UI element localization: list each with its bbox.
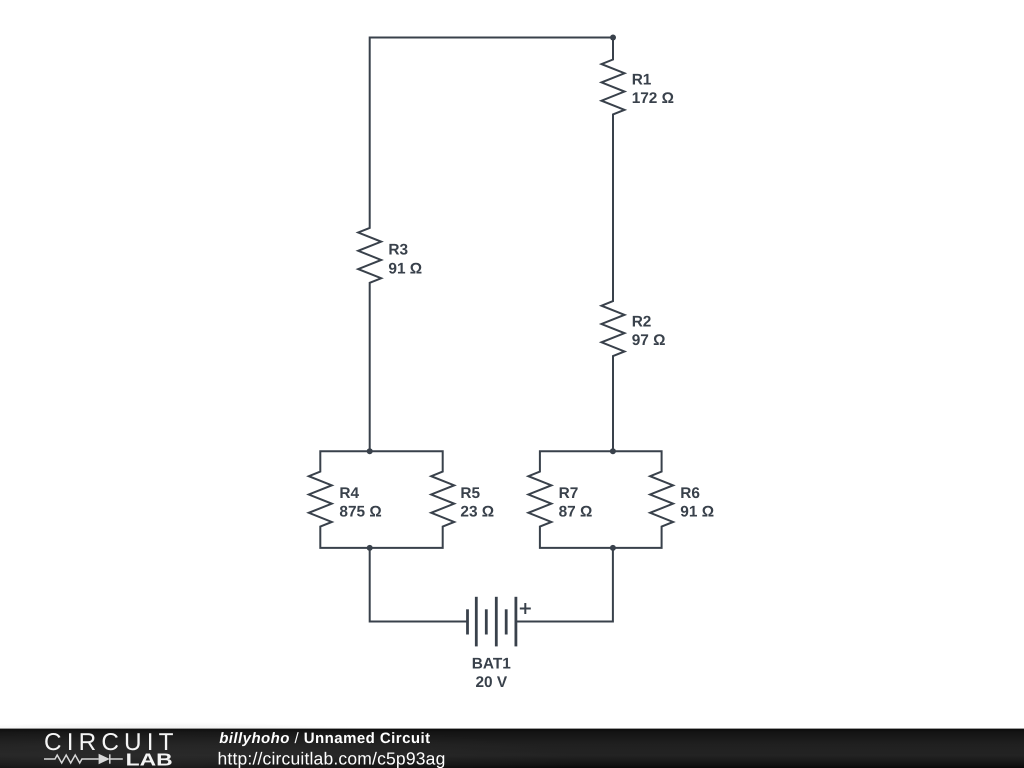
svg-text:R5: R5 — [460, 485, 480, 502]
svg-text:172 Ω: 172 Ω — [632, 90, 674, 107]
svg-text:R7: R7 — [559, 485, 579, 502]
svg-text:875 Ω: 875 Ω — [339, 504, 381, 521]
svg-text:20 V: 20 V — [475, 674, 507, 691]
svg-text:BAT1: BAT1 — [472, 655, 511, 672]
svg-text:R4: R4 — [339, 485, 359, 502]
svg-text:R3: R3 — [388, 242, 408, 259]
svg-text:LAB: LAB — [126, 749, 173, 768]
svg-text:91 Ω: 91 Ω — [680, 504, 714, 521]
svg-text:billyhoho / Unnamed Circuit: billyhoho / Unnamed Circuit — [219, 730, 430, 747]
svg-text:http://circuitlab.com/c5p93ag: http://circuitlab.com/c5p93ag — [218, 749, 446, 768]
svg-text:87 Ω: 87 Ω — [559, 504, 593, 521]
svg-text:97 Ω: 97 Ω — [632, 332, 666, 349]
svg-text:91 Ω: 91 Ω — [388, 260, 422, 277]
svg-text:23 Ω: 23 Ω — [460, 504, 494, 521]
svg-text:R6: R6 — [680, 485, 700, 502]
svg-text:R1: R1 — [632, 72, 652, 89]
svg-text:R2: R2 — [632, 313, 652, 330]
